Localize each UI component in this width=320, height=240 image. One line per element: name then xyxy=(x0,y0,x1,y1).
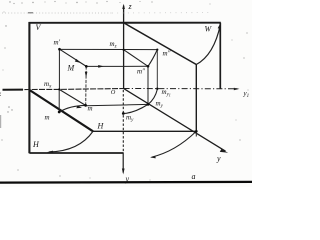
y axis below unfolded H (solid to arrow) xyxy=(122,153,124,173)
svg-text:M: M xyxy=(67,64,76,73)
svg-text:V: V xyxy=(36,23,42,32)
svg-text:mx: mx xyxy=(44,80,52,90)
arrowhead on junction arc xyxy=(150,156,156,159)
projector m' to m_x (vertical) xyxy=(58,49,60,89)
line m to pictorial m_y xyxy=(86,104,148,105)
pictorial y arrowhead xyxy=(220,149,228,153)
vertical pictorial m'' to m_y xyxy=(147,66,149,104)
projector m_x to m (diagonal) xyxy=(59,89,85,105)
scan speckles xyxy=(9,1,10,2)
pictorial H left edge (bold) xyxy=(30,90,94,131)
y axis unfolded, dashed below O xyxy=(122,90,124,153)
svg-text:z: z xyxy=(128,2,133,11)
pictorial H far edge (bottom horizontal) xyxy=(93,130,196,132)
point m' xyxy=(58,48,61,51)
svg-text:y1: y1 xyxy=(243,90,250,100)
svg-text:m: m xyxy=(88,105,93,113)
y (down) arrowhead xyxy=(122,169,125,175)
diagonal m_z to pictorial m'' xyxy=(124,50,148,67)
point m_y unfolded xyxy=(122,112,125,115)
arc unfolded m to pictorial m xyxy=(59,105,85,112)
z axis xyxy=(123,6,125,89)
point m_y pictorial xyxy=(147,103,150,106)
projector m' to m_z to unfolded m'' (horizontal) xyxy=(60,48,158,50)
point M xyxy=(85,65,88,68)
arc pictorial m'' to unfolded m'' xyxy=(148,50,157,67)
arrowhead on M-m'' ray xyxy=(98,65,104,68)
svg-text:H: H xyxy=(32,140,40,149)
z axis arrowhead xyxy=(122,4,125,9)
point unfolded m xyxy=(58,111,61,114)
svg-text:my: my xyxy=(156,100,164,110)
arc pictorial m_y to m_y1 xyxy=(148,89,157,104)
vertical unfolded m'' to m_y1 xyxy=(156,50,158,89)
arrowhead on W arc xyxy=(218,23,221,29)
pictorial W top edge diagonal xyxy=(124,23,197,65)
svg-text:my1: my1 xyxy=(162,88,171,98)
point m_y1 xyxy=(156,88,158,90)
unfolded W right edge xyxy=(219,23,221,89)
x axis xyxy=(3,89,124,90)
svg-text:m: m xyxy=(45,114,50,122)
pictorial y axis diagonal from O xyxy=(124,89,226,152)
arrowhead on m'-M ray xyxy=(75,59,81,63)
dotted scan artifact row xyxy=(2,12,112,14)
left margin smudge xyxy=(0,115,2,128)
svg-text:O: O xyxy=(111,89,116,96)
ray M to pictorial m'' (horizontal) xyxy=(86,65,148,67)
svg-text:x: x xyxy=(0,90,2,98)
svg-text:W: W xyxy=(205,25,213,34)
svg-text:m′: m′ xyxy=(54,39,61,47)
point m xyxy=(84,104,87,107)
svg-text:m″: m″ xyxy=(137,68,145,76)
junction pictorial H-W corner xyxy=(195,130,198,133)
arc H rotation xyxy=(49,131,93,152)
ray m' to M (diagonal) xyxy=(60,49,87,66)
pictorial W right edge vertical xyxy=(195,65,197,132)
arrowhead on H arc xyxy=(47,151,53,154)
svg-text:y: y xyxy=(216,154,221,163)
point m_x xyxy=(58,88,60,90)
point unfolded m'' xyxy=(156,49,158,51)
plane V outline (left vertical edge x=29.5 from top to unfolded-H bottom) xyxy=(28,22,30,153)
unfolded H bottom edge xyxy=(29,152,123,154)
arrowhead on M-m ray xyxy=(85,72,88,78)
ray M to m (vertical) xyxy=(85,66,88,105)
svg-text:m″: m″ xyxy=(163,50,171,58)
point pictorial m'' xyxy=(147,65,150,68)
svg-text:my: my xyxy=(126,114,134,124)
svg-text:a: a xyxy=(192,172,196,181)
x axis dark left tip xyxy=(3,89,24,91)
arc H far-corner rotation from junction xyxy=(152,131,197,157)
arc W rotation xyxy=(196,25,220,65)
arrowhead on m arc xyxy=(76,106,82,109)
y1 axis arrowhead xyxy=(234,88,240,91)
svg-text:H: H xyxy=(97,122,105,131)
top edge of V and unfolded W (y=22.3) xyxy=(29,22,221,24)
point m_z xyxy=(123,49,125,51)
svg-text:mz: mz xyxy=(110,40,117,50)
projector m_x to unfolded m (vertical) xyxy=(58,89,60,112)
bottom scan streak xyxy=(0,181,252,184)
y1 axis right of O (dash-dot) xyxy=(124,88,239,90)
W right edge stub below junction xyxy=(195,131,197,136)
arc pictorial m_y to unfolded m_y xyxy=(123,104,148,113)
